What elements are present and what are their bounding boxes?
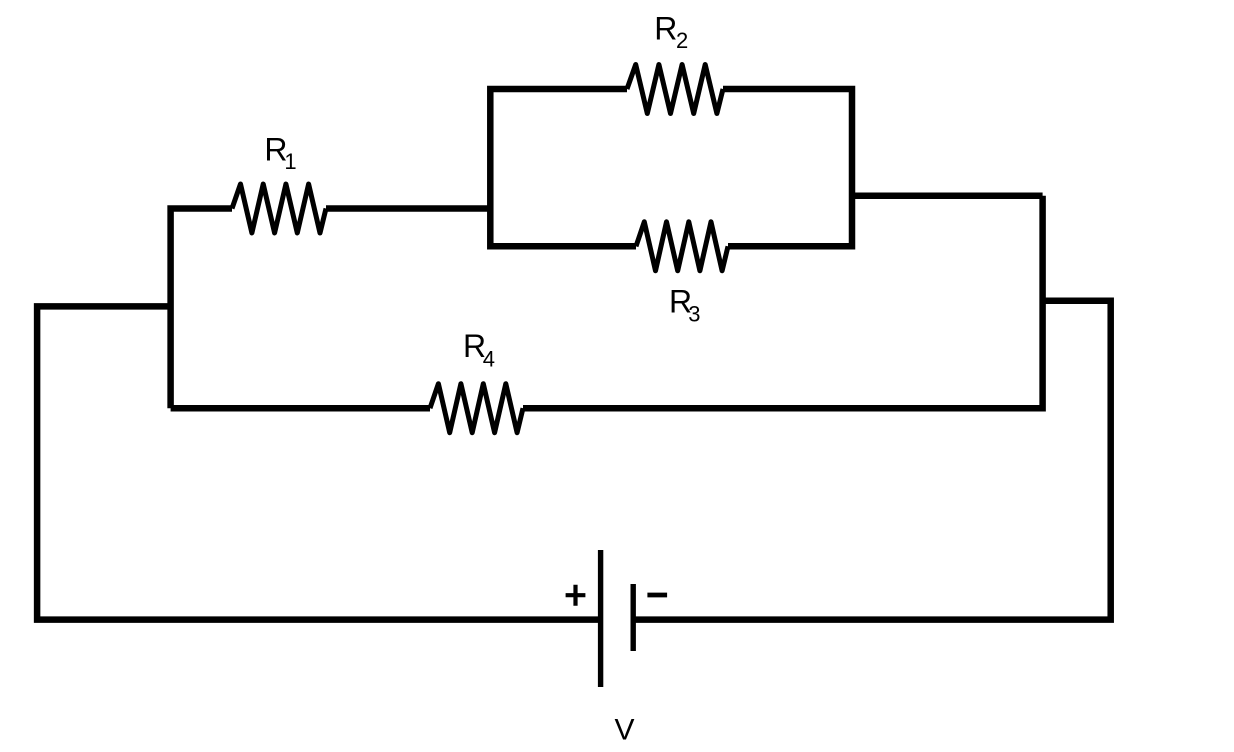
wire: parallel box left edge, top-left and bottom-left segments — [490, 89, 636, 246]
svg-text:3: 3 — [688, 301, 700, 326]
svg-text:V: V — [615, 714, 635, 747]
wire: parallel box right edge, top-right and bottom-right segments — [723, 89, 852, 246]
resistor R4 — [430, 384, 523, 433]
svg-text:2: 2 — [676, 28, 688, 53]
wire: R4 left lead — [171, 405, 430, 412]
resistor R3 — [636, 222, 728, 271]
wire: R1 right lead to parallel box — [326, 205, 490, 212]
minus sign — [647, 593, 667, 598]
wire: mid-left vertical from R1 level down to R4 level, and R1 left lead — [171, 209, 232, 409]
wire: right jog down to battery and bottom-right wire — [633, 301, 1110, 620]
resistor R2 — [627, 65, 723, 114]
wire: box exit to right vertical — [852, 193, 1043, 200]
plus sign — [566, 585, 586, 606]
resistor R1 — [232, 184, 326, 233]
battery V: long positive plate — [598, 550, 603, 687]
wire: right vertical down to R4 level and R4 right lead — [523, 196, 1043, 408]
svg-text:4: 4 — [483, 346, 495, 371]
wire: battery bottom-left to left-side vertical and junction at x=170 — [37, 306, 601, 619]
svg-text:1: 1 — [284, 149, 296, 174]
battery V: short negative plate — [631, 584, 636, 651]
svg-text:R: R — [654, 11, 677, 47]
